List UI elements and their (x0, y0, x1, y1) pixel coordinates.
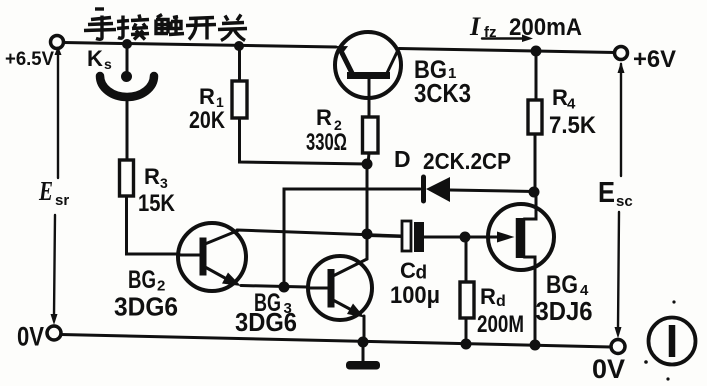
svg-text:100μ: 100μ (390, 282, 440, 309)
wire vertical node to BG2 collector node (366, 164, 369, 234)
label R2 330ohm (306, 105, 347, 156)
transistor BG4 (JFET) (488, 193, 554, 345)
svg-text:R: R (199, 84, 215, 109)
wire Rd bottom (465, 318, 468, 344)
wire BG2 collector (237, 230, 402, 236)
wire bottom rail (61, 335, 611, 348)
svg-text:R: R (316, 105, 332, 130)
svg-text:d: d (496, 293, 506, 310)
resistor R4 (528, 100, 542, 134)
node rail/R4 (531, 46, 542, 57)
label BG2 3DG6 (114, 266, 178, 322)
resistor R1 (232, 81, 247, 118)
label Esr (38, 176, 69, 209)
capacitor Cd right plate (414, 222, 424, 252)
terminal 0V right (611, 340, 625, 354)
label Ks (87, 46, 112, 72)
wire rail to Ks contact (126, 44, 129, 71)
svg-text:+6.5V: +6.5V (5, 49, 54, 70)
node BG2 collector / vertical (362, 229, 373, 240)
label +6V (633, 46, 676, 73)
wire Cd branch (367, 236, 402, 237)
wire R4 top to rail (535, 51, 538, 100)
label R3 15K (138, 164, 176, 217)
wire node up to R4 (534, 134, 537, 191)
svg-text:200M: 200M (477, 311, 524, 338)
svg-text:D: D (394, 146, 411, 172)
svg-text:sr: sr (55, 192, 69, 209)
wire Cd to gate node (424, 236, 465, 239)
svg-text:3CK3: 3CK3 (414, 78, 471, 108)
svg-text:E: E (598, 177, 615, 209)
svg-text:4: 4 (567, 96, 576, 113)
svg-text:I: I (469, 12, 481, 41)
wire node to Rd (465, 237, 468, 282)
wire R3 to BG2 base (127, 196, 180, 254)
svg-text:3DG6: 3DG6 (235, 307, 297, 337)
label Rd 200M (477, 284, 524, 338)
label BG4 3DJ6 (536, 271, 593, 326)
svg-text:sc: sc (616, 193, 633, 210)
svg-text:2CK.2CP: 2CK.2CP (423, 148, 511, 174)
touch switch Ks contact dot (121, 71, 132, 82)
node Cd/Rd/gate (460, 232, 471, 243)
label Ifz 200mA (469, 12, 582, 41)
label +6.5V (5, 49, 54, 70)
terminal +6V (615, 47, 628, 60)
svg-text:R: R (552, 85, 568, 110)
node BG2 emitter / diode branch (279, 282, 290, 293)
svg-text:0V: 0V (17, 322, 44, 352)
wire gate (465, 236, 500, 239)
label Cd 100u (390, 258, 440, 309)
transistor BG1 (335, 32, 401, 117)
resistor R2 (363, 117, 379, 153)
arrow under Ifz (482, 35, 533, 43)
wire rail to R1 (238, 46, 241, 81)
wire diode to node (450, 190, 534, 192)
node: rail junction for Ks (122, 39, 132, 49)
node BG4 source rail junction (530, 340, 541, 351)
svg-text:3DG6: 3DG6 (114, 292, 178, 322)
label Esc (598, 177, 633, 210)
svg-text:7.5K: 7.5K (549, 112, 597, 139)
svg-text:R: R (144, 164, 160, 189)
node: rail junction for R1 (234, 41, 244, 51)
wire Ks to R3 (126, 100, 129, 160)
svg-text:3: 3 (160, 175, 168, 191)
svg-text:BG: BG (546, 271, 578, 299)
svg-text:20K: 20K (189, 107, 226, 134)
node junction R1/R2 (362, 159, 373, 170)
svg-text:C: C (400, 258, 416, 283)
resistor Rd (460, 282, 474, 318)
capacitor Cd left plate (402, 221, 411, 251)
wire R1 bottom to node (240, 118, 368, 164)
resistor R3 (120, 160, 134, 196)
label R1 20K (189, 84, 226, 134)
diode D (424, 177, 451, 202)
Esc measurement arrow line (615, 62, 625, 339)
label 0V left (17, 322, 44, 352)
svg-text:+6V: +6V (633, 46, 676, 73)
terminal 0V left (47, 326, 61, 340)
wire BG2 emitter to BG3 base (241, 286, 307, 288)
touch switch Ks plate arc (100, 76, 154, 97)
node Rd bottom rail junction (461, 339, 472, 350)
svg-text:15K: 15K (138, 190, 176, 217)
svg-text:200mA: 200mA (509, 14, 582, 41)
svg-text:BG: BG (128, 266, 156, 294)
terminal +6.5V (51, 36, 64, 49)
svg-text:s: s (104, 56, 112, 72)
wire BG3 collector/emitter vertical to ground rail (364, 234, 367, 342)
node diode/R4/BG4 drain (529, 187, 540, 198)
svg-text:K: K (87, 46, 103, 71)
svg-text:E: E (38, 176, 53, 206)
scan speck dots (644, 300, 675, 380)
node ground rail junction (358, 337, 369, 348)
wire diode row (284, 189, 420, 286)
figure number circled I (649, 318, 696, 365)
transistor BG2 (178, 223, 246, 291)
transistor BG3 (308, 256, 372, 320)
svg-text:3DJ6: 3DJ6 (536, 296, 593, 326)
label D 2CK.2CP (394, 146, 511, 174)
svg-text:R: R (480, 284, 496, 309)
svg-text:0V: 0V (592, 354, 625, 381)
label 0V right (592, 354, 625, 384)
Esr measurement arrow line (51, 46, 62, 325)
label BG3 3DG6 (235, 289, 297, 337)
svg-text:d: d (416, 263, 428, 284)
wire top rail left segment (63, 43, 336, 48)
ground (346, 342, 380, 370)
svg-text:330Ω: 330Ω (306, 129, 347, 156)
wire top rail right segment (399, 49, 615, 53)
label R4 7.5K (549, 85, 597, 139)
wire R2 bottom (368, 153, 369, 164)
label 手接触开关 (hand touch switch, drawn strokes) (84, 9, 247, 41)
label BG1 3CK3 (414, 56, 471, 108)
